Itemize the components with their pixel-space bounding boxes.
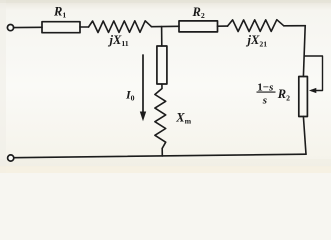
arrowhead of load arrow	[309, 88, 316, 93]
current arrow I0	[142, 55, 144, 114]
wire: R1 to jX11	[80, 26, 89, 28]
resistor Rm (magnetizing branch box)	[157, 46, 167, 84]
svg-text:s: s	[262, 95, 267, 107]
bottom rail wire	[14, 154, 306, 158]
wire: Xm to bottom rail	[161, 148, 163, 156]
terminal T2 (bottom-left)	[8, 155, 14, 161]
resistor R1	[42, 22, 80, 33]
resistor R2	[179, 21, 218, 32]
inductor jX11 (zigzag)	[89, 21, 152, 33]
wire: load box to bottom rail	[303, 117, 306, 155]
wire: jX21 to right branch corner	[284, 25, 306, 27]
resistor (1-s)/s R2 (load box)	[299, 77, 308, 117]
arrow into load resistor (variable indicator)	[304, 56, 322, 91]
inductor jX21 (zigzag)	[228, 20, 284, 32]
wire: jX11 to R2 through node A	[152, 25, 180, 27]
paper background	[0, 0, 331, 173]
wire: terminal T1 to R1	[14, 26, 42, 28]
svg-text:1−s: 1−s	[257, 81, 273, 93]
inductor Xm (vertical zigzag)	[155, 84, 166, 148]
node A: junction of magnetizing branch	[161, 27, 163, 46]
wire: right branch vertical down to load resistor	[303, 26, 305, 77]
wire: R2 to jX21	[218, 25, 228, 27]
terminal T1 (top-left)	[7, 25, 13, 31]
